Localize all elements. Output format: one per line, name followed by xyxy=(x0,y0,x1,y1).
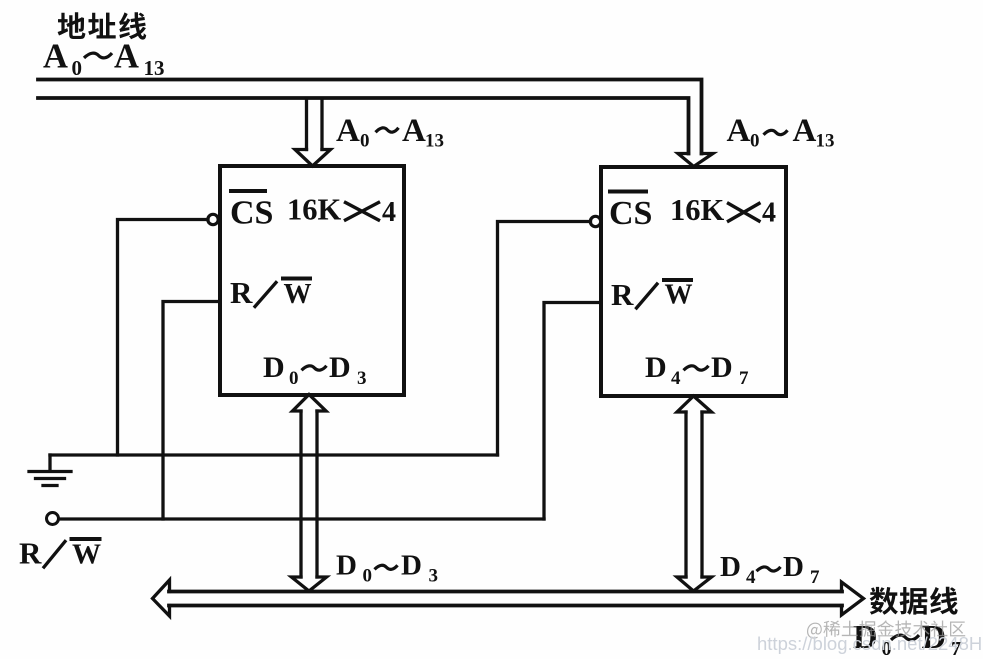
wire R/W rail xyxy=(59,517,544,520)
wire bus arrow shaft into U1 xyxy=(307,99,323,150)
overline W input label xyxy=(72,537,100,541)
svg-text:7: 7 xyxy=(739,368,749,389)
wire data arrow U1 shaft xyxy=(301,411,317,577)
pin bubble CS U1 xyxy=(208,214,218,224)
svg-text:13: 13 xyxy=(816,131,835,152)
svg-text:3: 3 xyxy=(429,566,439,587)
memory chip U1 16Kx4 xyxy=(220,166,404,395)
wire CS U2 to ground rail xyxy=(498,222,591,456)
svg-text:7: 7 xyxy=(810,567,820,588)
svg-text:4: 4 xyxy=(671,368,681,389)
wire R/W to U1 xyxy=(163,302,218,520)
label address-line Chinese xyxy=(58,12,147,39)
svg-text:D: D xyxy=(711,351,733,384)
node data-bus left arrowhead xyxy=(153,580,170,616)
svg-text:D: D xyxy=(329,351,351,384)
slash R/W U1 xyxy=(255,283,276,307)
svg-text:0: 0 xyxy=(289,368,299,389)
svg-text:D: D xyxy=(336,550,357,582)
wire data-bus upper line xyxy=(169,590,842,594)
svg-text:0: 0 xyxy=(750,131,760,152)
svg-text:CS: CS xyxy=(230,195,273,232)
svg-text:4: 4 xyxy=(382,197,396,228)
pin bubble CS U2 xyxy=(590,216,600,226)
svg-text:0: 0 xyxy=(363,566,373,587)
svg-text:D: D xyxy=(263,351,285,384)
node arrowhead data U2 up xyxy=(677,396,712,412)
wire data-bus lower line xyxy=(169,604,842,608)
svg-text:D: D xyxy=(720,551,741,583)
wire CS U1 to ground rail xyxy=(118,220,209,456)
svg-text:A: A xyxy=(114,38,139,76)
svg-text:A: A xyxy=(336,113,360,149)
svg-text:4: 4 xyxy=(746,567,756,588)
svg-text:4: 4 xyxy=(762,198,776,229)
wire address-bus lower line xyxy=(38,98,689,154)
terminal R/W input xyxy=(47,513,59,525)
svg-text:A: A xyxy=(727,113,751,149)
overline W U2 xyxy=(664,278,691,282)
svg-text:16K: 16K xyxy=(287,193,342,227)
node arrowhead data U1 down xyxy=(292,577,327,591)
ground symbol xyxy=(29,455,71,486)
svg-text:W: W xyxy=(665,280,693,311)
wire data arrow U2 shaft xyxy=(686,412,702,577)
multiply sign U2 xyxy=(729,204,760,222)
svg-text:0: 0 xyxy=(360,131,370,152)
svg-text:A: A xyxy=(43,38,68,76)
svg-text:D: D xyxy=(783,551,804,583)
node data-bus right arrowhead xyxy=(842,582,864,615)
svg-text:W: W xyxy=(284,279,312,310)
label data-line Chinese xyxy=(870,587,958,615)
slash R/W U2 xyxy=(637,284,658,308)
node arrowhead data U2 down xyxy=(677,577,712,591)
svg-text:W: W xyxy=(72,539,101,571)
multiply sign U1 xyxy=(346,203,379,221)
svg-text:R: R xyxy=(611,277,634,312)
overline CS U2 xyxy=(610,190,646,194)
svg-text:D: D xyxy=(401,550,422,582)
svg-text:A: A xyxy=(793,113,817,149)
overline W U1 xyxy=(283,277,310,281)
svg-text:R: R xyxy=(230,275,253,310)
wire address-bus upper line xyxy=(38,80,702,154)
watermark juejin xyxy=(807,620,965,638)
svg-text:13: 13 xyxy=(144,56,165,80)
svg-text:13: 13 xyxy=(425,131,444,152)
node arrowhead data U1 up xyxy=(293,395,327,412)
svg-text:CS: CS xyxy=(609,195,652,232)
svg-text:https://blog.csdn.net/2248H25: https://blog.csdn.net/2248H25 xyxy=(757,633,983,654)
wire ground rail xyxy=(50,453,498,456)
svg-text:0: 0 xyxy=(72,56,83,80)
svg-text:A: A xyxy=(402,113,426,149)
node arrowhead A-bus U2 xyxy=(678,154,713,167)
slash R/W input label xyxy=(44,542,65,568)
svg-text:R: R xyxy=(19,536,42,571)
overline CS U1 xyxy=(231,189,265,193)
svg-text:D: D xyxy=(645,351,667,384)
memory chip U2 16Kx4 xyxy=(601,167,786,396)
svg-text:3: 3 xyxy=(357,368,367,389)
node arrowhead A-bus U1 xyxy=(295,150,331,167)
wire R/W to U2 xyxy=(544,303,599,520)
svg-text:16K: 16K xyxy=(670,193,725,227)
